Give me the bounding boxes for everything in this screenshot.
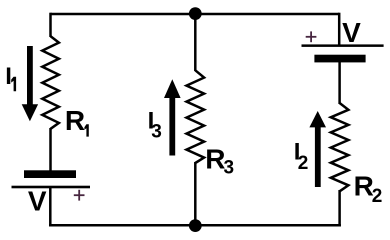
current arrow I2 (upward) — [309, 111, 326, 187]
label I2 — [294, 139, 309, 174]
current arrow I1 (downward) — [22, 46, 38, 121]
polarity + (left battery) — [74, 190, 85, 201]
svg-text:3: 3 — [224, 157, 235, 178]
svg-text:I: I — [5, 63, 12, 90]
current arrow I3 (upward) — [164, 79, 181, 155]
wire R2 to bottom rail — [338, 190, 341, 227]
label I3 — [148, 107, 162, 142]
svg-text:3: 3 — [151, 122, 162, 143]
label R3 — [205, 143, 234, 178]
svg-text:R: R — [65, 105, 85, 136]
svg-text:2: 2 — [372, 186, 383, 207]
battery V (left) negative plate (thick bar) — [24, 170, 76, 178]
resistor R1 — [42, 36, 59, 129]
wire middle branch top (top dot to R3) — [194, 14, 197, 71]
wire R3 to bottom dot — [194, 162, 197, 225]
svg-text:R: R — [205, 143, 225, 174]
label R2 — [354, 170, 383, 207]
wire left branch top (top rail to R1) — [49, 13, 52, 37]
svg-text:V: V — [342, 17, 361, 48]
resistor R2 — [331, 103, 349, 191]
junction node B (bottom dot) — [189, 219, 202, 232]
wire battery V left to bottom rail — [49, 188, 52, 225]
battery V (left) positive plate (thin long line) — [12, 186, 91, 189]
battery V (right) positive plate (thin long line) — [302, 44, 384, 47]
label R1 — [65, 105, 89, 137]
polarity + (right battery) — [306, 31, 317, 42]
battery V (right) negative plate (thick bar) — [314, 55, 365, 63]
svg-text:2: 2 — [298, 153, 309, 174]
wire top (node A rail) — [51, 13, 340, 16]
svg-text:V: V — [28, 185, 47, 216]
wire R1 to battery V left — [49, 128, 52, 171]
resistor R3 — [187, 70, 205, 163]
wire battery V right to R2 — [338, 62, 341, 104]
junction node A (top dot) — [189, 7, 202, 20]
wire bottom (node B rail) — [49, 224, 341, 227]
wire right branch top (top rail to battery V right) — [338, 13, 341, 45]
label I1 — [5, 63, 16, 91]
